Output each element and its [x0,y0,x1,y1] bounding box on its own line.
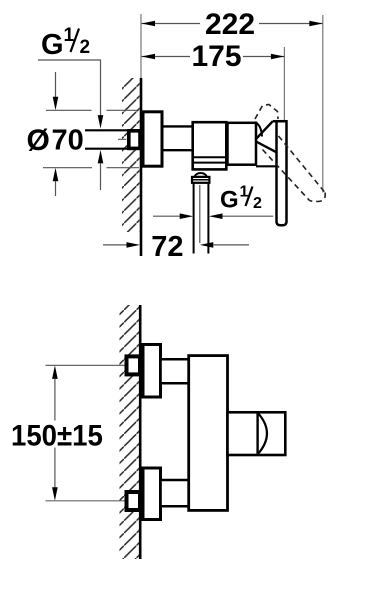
svg-text:G: G [41,29,64,61]
svg-text:222: 222 [205,8,255,41]
svg-text:175: 175 [191,40,241,73]
svg-text:2: 2 [80,37,91,58]
svg-text:G: G [220,187,239,214]
svg-text:72: 72 [151,231,183,263]
svg-text:2: 2 [253,195,262,212]
svg-text:150±15: 150±15 [11,420,103,453]
svg-text:Ø: Ø [27,124,50,157]
svg-text:1: 1 [240,184,249,201]
svg-text:70: 70 [52,124,84,156]
